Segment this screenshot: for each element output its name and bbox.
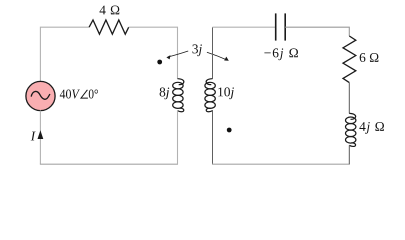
current arrow I [38, 130, 44, 139]
wire: below L1 [177, 110, 179, 164]
wire: left loop top-left [40, 27, 89, 81]
wire: left loop top-right [129, 27, 178, 78]
inductor L1 (8j) [173, 79, 184, 112]
capacitor C1 (-6j) [276, 13, 286, 40]
wire: top right loop, left segment [213, 26, 276, 28]
label 0deg [89, 90, 98, 99]
wire: below L2 [212, 110, 214, 164]
wire: bottom right loop [212, 163, 350, 165]
wire: above L2 [212, 27, 214, 78]
mutual arrow left [168, 51, 188, 57]
label 10j [218, 87, 234, 99]
wire: top right loop, right segment [285, 27, 349, 36]
wire: bottom left loop [40, 163, 178, 165]
arrowhead right [224, 57, 229, 61]
label 6 ohm [360, 53, 379, 62]
polarity dot left [157, 60, 162, 65]
label 3j [193, 44, 202, 56]
resistor R1 (4 ohm) [89, 20, 129, 34]
label 8j [160, 88, 170, 100]
label 4j ohm [359, 122, 384, 134]
mutual arrow right [207, 52, 227, 60]
inductor L2 (10j) [205, 79, 215, 112]
label I [31, 132, 36, 141]
label 40V [60, 90, 80, 99]
arrowhead left [166, 55, 170, 59]
inductor L3 (4j) [346, 113, 356, 146]
label 4 ohm [100, 6, 120, 15]
voltage source VS (40V) [26, 81, 55, 110]
wire: below L3 [348, 145, 350, 164]
wire: left below source [39, 111, 41, 165]
resistor R2 (6 ohm) [343, 36, 356, 83]
polarity dot right [227, 128, 232, 133]
wire: between R2 and L3 [348, 83, 350, 114]
angle symbol [81, 90, 88, 98]
sine symbol [31, 91, 50, 99]
label -6j ohm [264, 48, 298, 60]
